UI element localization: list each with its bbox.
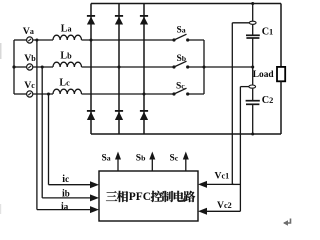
diode D4 bottom leg A [87,111,95,120]
wire ic sense [49,94,100,188]
wire gate signal Sc [183,152,189,172]
label La [61,24,72,35]
svg-text:Vc: Vc [24,80,35,91]
wire Vc2 sense [198,87,249,215]
wire Sb to cap midpoint [188,66,253,68]
wire gate signal Sb [149,152,155,172]
diode D5 top leg C [140,16,148,25]
label Sa gate [102,153,111,163]
label ia [61,201,69,212]
scan artifact left edge [0,43,2,214]
svg-text:Sa: Sa [102,153,111,163]
node Vc1 tap [249,21,256,24]
wire gate signal Sa [115,152,121,172]
wire Sa to rail [188,39,204,41]
wire Vc to neutral [14,93,27,95]
wire top DC rail [91,3,281,5]
svg-text:Vc1: Vc1 [215,170,230,181]
svg-text:Lb: Lb [60,50,72,61]
diode D1 top leg A [87,16,95,25]
wire C1 to midpoint [252,38,254,67]
svg-text:Sb: Sb [136,153,146,163]
label Sc gate [170,153,179,163]
wire right rail lower [280,81,282,134]
junction cap column bottom [251,133,254,136]
wire Vc1 sense [198,23,249,188]
junction phase B leg [117,65,120,68]
switch Sa [172,25,189,41]
diode D2 bottom leg C [140,111,148,120]
svg-text:Load: Load [253,70,275,80]
inductor La [53,35,82,40]
wire right rail upper [280,4,282,68]
wire top rail to Vc1 tap [252,4,254,22]
wire source neutral rail [13,40,15,94]
load label [253,70,275,80]
wire tap to C2 [252,89,254,101]
wire Va to neutral [14,39,27,41]
svg-text:Vc2: Vc2 [217,200,232,211]
label Vc [24,80,35,91]
svg-text:Sc: Sc [176,82,185,92]
wire ia sense [37,40,99,213]
label Vc1 [215,170,230,181]
svg-text:Sc: Sc [170,153,179,163]
wire Va to La [33,39,53,41]
junction neutral-Vb [12,65,15,68]
wire Vb to Lb [33,66,53,68]
label control block text 三相PFC控制电路 [106,191,195,203]
wire C2 to bottom rail [252,104,254,134]
load resistor [277,67,285,81]
wire tap to C1 [252,25,254,35]
svg-text:ib: ib [62,188,70,199]
svg-text:Vb: Vb [24,53,36,64]
junction ic tap [47,92,50,95]
svg-text:Va: Va [23,26,34,37]
inductor Lc [53,89,82,94]
wire bridge leg C [143,4,145,135]
label Va [23,26,34,37]
svg-text:C1: C1 [262,26,274,37]
diode D3 top leg B [115,16,123,25]
capacitor C2 [246,101,260,105]
source Vb [27,64,33,70]
label ic [62,174,69,185]
svg-text:C2: C2 [262,95,274,106]
wire midpoint to Vc2 tap [252,67,254,85]
wire switch common rail [203,40,205,94]
junction phase C leg [142,92,145,95]
svg-text:ic: ic [62,174,69,185]
source Va [27,37,33,43]
wire Vc to Lc [33,93,53,95]
label C2 [262,95,274,106]
node Vc2 tap [249,85,256,88]
label ib [62,188,70,199]
diode D6 bottom leg B [115,111,123,120]
svg-text:ia: ia [61,201,69,212]
source Vc [27,91,33,97]
wire Vb to neutral [14,66,27,68]
control block U1 [99,171,198,221]
wire bridge leg A [90,4,92,135]
svg-text:PFC: PFC [129,191,151,203]
inductor Lb [53,62,82,67]
svg-text:La: La [61,24,72,35]
label Lb [60,50,72,61]
junction phase A leg [89,38,92,41]
wire Sc to rail [188,93,204,95]
wire bottom DC rail [91,133,281,135]
junction cap midpoint [251,65,254,68]
junction cap column top [251,2,254,5]
label Sb gate [136,153,146,163]
svg-text:Sb: Sb [177,54,187,64]
label C1 [262,26,274,37]
wire La to bridge [82,39,175,41]
return mark [283,219,291,226]
wire ib sense [42,67,99,201]
label Vb [24,53,36,64]
svg-text:Lc: Lc [59,77,70,88]
wire Lc to bridge [82,93,175,95]
switch Sc [172,82,189,96]
capacitor C1 [246,35,260,38]
label Vc2 [217,200,232,211]
switch Sb [172,54,189,68]
svg-text:Sa: Sa [177,25,186,35]
label Lc [59,77,70,88]
junction ia tap [35,38,38,41]
junction ib tap [41,65,44,68]
wire Lb to bridge [82,66,175,68]
junction Sb rail [202,65,205,68]
wire bridge leg B [118,4,120,135]
